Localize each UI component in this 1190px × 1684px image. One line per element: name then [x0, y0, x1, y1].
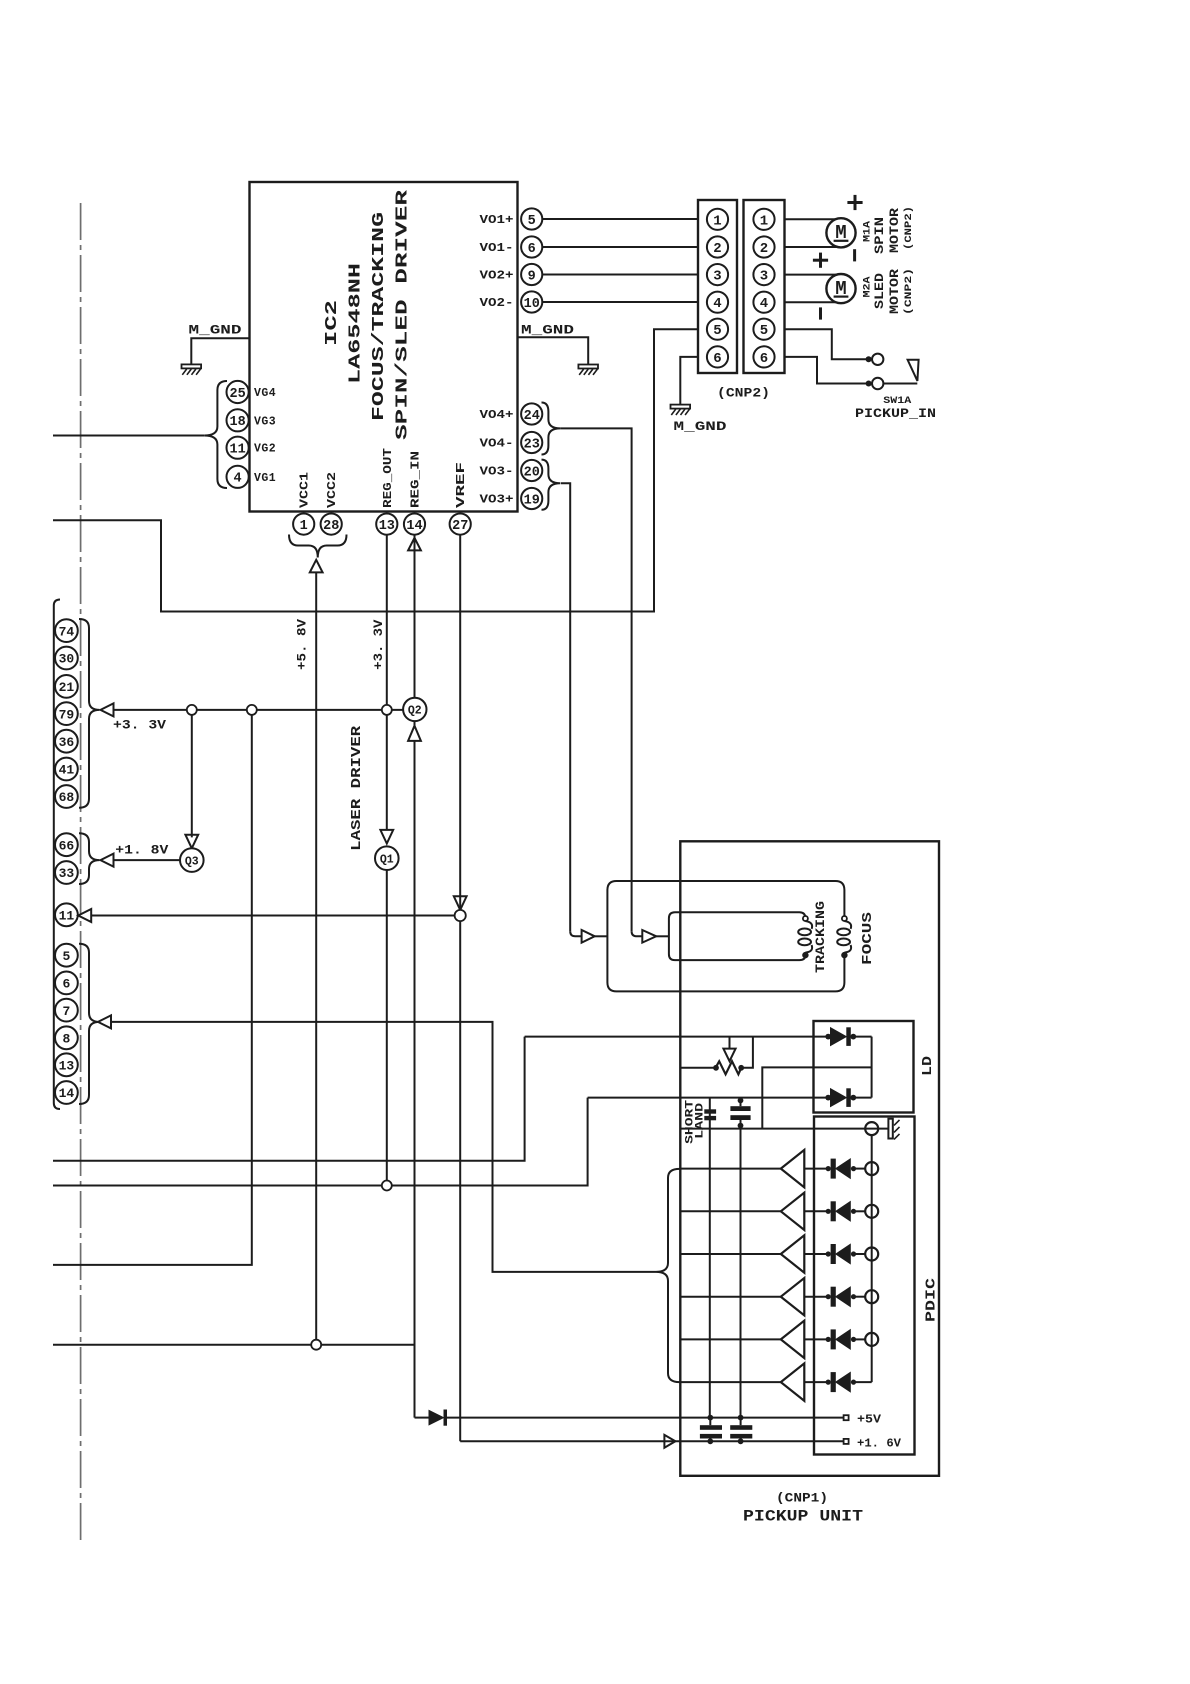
- svg-text:VO3+: VO3+: [480, 494, 514, 507]
- svg-text:13: 13: [59, 1058, 75, 1073]
- svg-text:20: 20: [524, 465, 540, 480]
- photodiode PD6: [804, 1381, 828, 1383]
- pin 4 CNP2 right: [753, 292, 774, 313]
- svg-text:PICKUP UNIT: PICKUP UNIT: [743, 1508, 863, 1526]
- inductor focus coil: [842, 916, 847, 921]
- svg-text:Q3: Q3: [185, 855, 199, 868]
- arrow +3.3V net: [101, 703, 114, 716]
- arrow REG_IN pin14: [408, 538, 421, 551]
- junction on +3.3V rail b: [247, 705, 257, 715]
- wire CNP2 p5 to switch: [785, 329, 867, 359]
- brace VO4 pins: [542, 403, 561, 455]
- photodiode PD3: [804, 1253, 828, 1255]
- svg-text:+5V: +5V: [857, 1413, 881, 1426]
- wire pin11 to VREF node: [91, 915, 454, 917]
- svg-text:21: 21: [59, 680, 75, 695]
- junction +5.8V at VCC return: [311, 1340, 321, 1350]
- node connector pin 8: [55, 1026, 78, 1049]
- svg-text:19: 19: [524, 493, 540, 508]
- node connector pin 68: [55, 785, 78, 808]
- svg-text:4: 4: [760, 296, 768, 312]
- svg-text:9: 9: [528, 269, 536, 284]
- svg-text:11: 11: [229, 443, 245, 458]
- node connector pin 33: [55, 861, 78, 884]
- wire +5.8V supply: [315, 572, 317, 1340]
- svg-text:VO3-: VO3-: [480, 466, 514, 479]
- op-amp/driver IC U IC2 box: [250, 182, 518, 512]
- amplifier PDIC ch3: [680, 1253, 781, 1255]
- svg-text:79: 79: [59, 707, 75, 722]
- transistor Q1: [375, 846, 399, 870]
- svg-text:2: 2: [760, 241, 768, 257]
- svg-text:VG1: VG1: [254, 472, 276, 485]
- ground M_GND below CNP2: [671, 405, 691, 409]
- photodiode PD4: [804, 1296, 828, 1298]
- laser diode LD1: [825, 1034, 831, 1040]
- svg-text:1: 1: [760, 213, 768, 229]
- wire cap branch vertical: [740, 1129, 742, 1418]
- svg-text:14: 14: [406, 519, 422, 534]
- pickup unit enclosure: [680, 841, 939, 1476]
- wire Q3 feed: [191, 715, 193, 838]
- wire LD cathode to pdic gnd node: [762, 1067, 871, 1128]
- svg-text:VO4+: VO4+: [480, 409, 514, 422]
- svg-text:MOTOR: MOTOR: [887, 208, 902, 253]
- wire switch lower lead: [883, 383, 917, 385]
- wire pot right lead: [741, 1037, 753, 1068]
- svg-text:REG_IN: REG_IN: [410, 451, 423, 508]
- wire CNP2-6 to ground: [680, 357, 698, 405]
- pin 4 VG1 of IC2: [227, 466, 249, 488]
- wire LD anode rail: [525, 1036, 829, 1038]
- node connector pin 11: [55, 903, 78, 926]
- switch SW1A lever: [908, 360, 919, 381]
- svg-text:VG3: VG3: [254, 415, 276, 428]
- svg-text:13: 13: [379, 519, 395, 534]
- transistor Q2: [403, 698, 426, 721]
- arrow VCC supply: [310, 560, 323, 573]
- transistor Q3: [180, 848, 204, 872]
- svg-text:PICKUP_IN: PICKUP_IN: [855, 407, 936, 421]
- pin 1 CNP2 left: [707, 209, 728, 230]
- brace pins 74-68: [79, 619, 100, 808]
- pin 5 CNP2 left: [707, 319, 728, 340]
- node PDIC out 3: [865, 1248, 878, 1261]
- node connector pin 36: [55, 730, 78, 753]
- wire VO1- to CNP2: [542, 246, 698, 248]
- wire REG_IN to diode: [415, 1417, 430, 1419]
- connector CNP2 right housing: [744, 200, 785, 373]
- svg-text:(CNP2): (CNP2): [903, 206, 915, 250]
- svg-text:27: 27: [452, 519, 468, 534]
- wire pin7 to PDIC brace: [111, 1022, 656, 1272]
- photodetector PDIC box: [814, 1117, 915, 1455]
- short land jumper: [704, 1109, 716, 1113]
- arrow +1.8V net: [101, 854, 114, 867]
- svg-text:M_GND: M_GND: [674, 419, 727, 434]
- node +1.6V terminal: [844, 1439, 849, 1444]
- wire REG_IN vertical: [414, 535, 416, 726]
- node PDIC out 2: [865, 1205, 878, 1218]
- connector bus bracket: [54, 600, 60, 1110]
- node PDIC out 1: [865, 1162, 878, 1175]
- junction VREF node: [455, 910, 466, 921]
- svg-text:VO4-: VO4-: [480, 438, 514, 451]
- svg-text:MOTOR: MOTOR: [887, 269, 902, 314]
- wire CNP2-5 to IC side: [53, 329, 698, 611]
- brace VO3 pins: [542, 460, 561, 510]
- svg-text:1: 1: [300, 519, 308, 534]
- wire VREF vertical: [459, 535, 461, 910]
- arrow tracking drive: [642, 930, 656, 943]
- svg-text:M_GND: M_GND: [189, 323, 242, 338]
- svg-text:6: 6: [528, 242, 536, 257]
- node connector pin 74: [55, 619, 78, 642]
- svg-text:1: 1: [713, 213, 721, 229]
- svg-text:SPIN: SPIN: [872, 217, 887, 254]
- amplifier PDIC ch4: [680, 1296, 781, 1298]
- svg-text:74: 74: [59, 624, 75, 639]
- wire LD cathode common: [871, 1037, 873, 1098]
- node connector pin 13: [55, 1053, 78, 1076]
- svg-text:14: 14: [59, 1086, 75, 1101]
- wire VO4 to tracking coil: [560, 428, 631, 931]
- wire VG bus: [53, 435, 204, 437]
- junction REG_OUT at LD2 feed: [382, 1181, 392, 1191]
- svg-text:VO2+: VO2+: [480, 270, 514, 283]
- svg-text:LD: LD: [921, 1056, 936, 1076]
- svg-text:+1. 6V: +1. 6V: [857, 1437, 901, 1450]
- svg-text:3: 3: [760, 269, 768, 285]
- node connector pin 21: [55, 675, 78, 698]
- svg-text:5: 5: [713, 323, 721, 339]
- svg-text:VCC2: VCC2: [326, 472, 339, 508]
- svg-text:REG_OUT: REG_OUT: [382, 448, 395, 508]
- pin 18 VG3 of IC2: [227, 409, 249, 431]
- wire pot left lead: [680, 1067, 715, 1069]
- svg-text:41: 41: [59, 763, 75, 778]
- inductor tracking coil: [803, 916, 808, 921]
- svg-text:24: 24: [524, 409, 540, 424]
- pin 5 CNP2 right: [753, 319, 774, 340]
- svg-text:LA6548NH: LA6548NH: [347, 263, 366, 384]
- svg-text:5: 5: [528, 214, 536, 229]
- svg-text:+1. 8V: +1. 8V: [115, 843, 168, 858]
- amplifier PDIC ch2: [680, 1210, 781, 1212]
- brace pins 5-14: [79, 944, 100, 1104]
- photodiode PD5: [804, 1338, 828, 1340]
- svg-text:10: 10: [524, 297, 540, 312]
- node connector pin 6: [55, 972, 78, 995]
- svg-text:2: 2: [713, 241, 721, 257]
- wire PDIC common vertical: [871, 1135, 873, 1382]
- junction on +3.3V rail at REG_OUT: [382, 705, 392, 715]
- svg-text:23: 23: [524, 437, 540, 452]
- coil loop inner tracking: [669, 912, 806, 960]
- svg-text:+3. 3V: +3. 3V: [371, 619, 386, 669]
- wire LD2 anode rail: [588, 1097, 829, 1099]
- wire VO3 to focus coil: [561, 483, 570, 931]
- wire LD anode feed: [53, 1037, 525, 1161]
- svg-text:SLED: SLED: [872, 273, 887, 309]
- wire CNP2 p4 to sled motor: [785, 301, 836, 303]
- svg-text:VO1-: VO1-: [480, 242, 514, 255]
- diode D1: [429, 1410, 444, 1424]
- label + sled: [813, 259, 828, 262]
- capacitor C5b: [738, 1415, 744, 1421]
- svg-text:7: 7: [62, 1004, 70, 1019]
- svg-text:(CNP2): (CNP2): [717, 387, 770, 401]
- node PDIC out 4: [865, 1290, 878, 1303]
- wire REG_OUT vertical: [386, 535, 388, 830]
- pin 6 CNP2 right: [753, 346, 774, 367]
- amplifier PDIC ch1: [680, 1168, 781, 1170]
- motor M2A: [826, 274, 855, 303]
- wire VO2- to CNP2: [542, 301, 698, 303]
- wire +1.6V rail: [460, 1440, 843, 1442]
- svg-text:30: 30: [59, 652, 75, 667]
- pin 3 CNP2 left: [707, 264, 728, 285]
- svg-text:68: 68: [59, 790, 75, 805]
- pin 3 CNP2 right: [753, 264, 774, 285]
- svg-text:(CNP2): (CNP2): [903, 268, 915, 315]
- node PDIC ground contact: [865, 1122, 878, 1135]
- node connector pin 7: [55, 999, 78, 1022]
- wire net to +3.3V rail: [53, 715, 252, 1265]
- wire VCC return: [53, 1344, 415, 1346]
- pin 2 CNP2 left: [707, 236, 728, 257]
- svg-text:5: 5: [62, 949, 70, 964]
- svg-text:(CNP1): (CNP1): [776, 1491, 828, 1506]
- wire +3.3V rail: [113, 709, 403, 711]
- photodiode PD1: [804, 1168, 828, 1170]
- svg-text:6: 6: [760, 351, 768, 367]
- resistor variable APC: [716, 1061, 742, 1074]
- node PDIC out 5: [865, 1333, 878, 1346]
- arrow into Q3: [185, 835, 198, 849]
- svg-text:TRACKING: TRACKING: [813, 901, 828, 973]
- arrow into Q1: [380, 830, 393, 844]
- brace VG pins: [204, 381, 227, 488]
- wire +1.8V rail: [113, 859, 180, 861]
- svg-text:33: 33: [59, 866, 75, 881]
- wire CNP2 p6 to switch: [785, 357, 867, 384]
- svg-text:66: 66: [59, 838, 75, 853]
- arrow pin 11 net: [78, 909, 91, 922]
- svg-text:PDIC: PDIC: [925, 1278, 940, 1322]
- svg-text:25: 25: [229, 387, 245, 402]
- wire CNP2 p1 to spin motor: [785, 218, 836, 220]
- svg-text:36: 36: [59, 735, 75, 750]
- motor M1A: [826, 218, 855, 247]
- capacitor C upper: [738, 1098, 744, 1104]
- svg-text:LAND: LAND: [694, 1102, 706, 1139]
- junction on +3.3V rail a: [187, 705, 197, 715]
- brace VCC1 VCC2: [289, 535, 347, 558]
- ground PDIC (rotated): [888, 1119, 892, 1139]
- svg-text:SW1A: SW1A: [883, 395, 912, 407]
- wire pdic ground rail: [680, 1128, 888, 1130]
- wire LD2 anode feed: [53, 1098, 588, 1186]
- pin 11 VG2 of IC2: [227, 437, 249, 459]
- svg-text:VO2-: VO2-: [480, 297, 514, 310]
- pin 4 CNP2 left: [707, 292, 728, 313]
- arrow +1.6V into pickup: [664, 1435, 675, 1448]
- svg-text:M_GND: M_GND: [521, 323, 574, 338]
- svg-text:3: 3: [713, 269, 721, 285]
- pin 25 VG4 of IC2: [227, 381, 249, 403]
- svg-text:Q2: Q2: [408, 705, 422, 718]
- label - sled: [819, 307, 822, 319]
- amplifier PDIC ch6: [680, 1381, 781, 1383]
- capacitor C5a: [707, 1415, 713, 1421]
- brace pins 66-33: [79, 833, 100, 884]
- switch SW1A upper contact: [872, 354, 883, 365]
- wire VO1+ to CNP2: [542, 218, 698, 220]
- svg-text:VG2: VG2: [254, 443, 276, 456]
- coil loop outer focus: [607, 881, 844, 991]
- svg-text:FOCUS: FOCUS: [861, 912, 876, 965]
- node connector pin 66: [55, 833, 78, 856]
- node connector pin 14: [55, 1081, 78, 1104]
- svg-text:6: 6: [713, 351, 721, 367]
- svg-text:+3. 3V: +3. 3V: [113, 718, 166, 733]
- wire CNP2 p3 to sled motor: [785, 274, 837, 276]
- svg-text:28: 28: [323, 519, 339, 534]
- switch SW1A lower contact: [872, 378, 883, 389]
- pin 6 CNP2 left: [707, 346, 728, 367]
- arrow focus drive: [582, 930, 595, 943]
- node connector pin 30: [55, 647, 78, 670]
- svg-text:VCC1: VCC1: [299, 472, 312, 508]
- svg-text:Q1: Q1: [380, 853, 394, 866]
- node connector pin 41: [55, 758, 78, 781]
- svg-text:4: 4: [234, 472, 242, 487]
- svg-text:VREF: VREF: [455, 462, 468, 508]
- pin 2 CNP2 right: [753, 236, 774, 257]
- svg-text:+5. 8V: +5. 8V: [295, 619, 310, 670]
- svg-text:LASER DRIVER: LASER DRIVER: [350, 725, 365, 851]
- arrow into Q2: [408, 726, 421, 741]
- net boundary chain line: [80, 203, 82, 1544]
- connector CNP2 left housing: [698, 200, 737, 373]
- photodiode PD2: [804, 1210, 828, 1212]
- svg-text:18: 18: [229, 415, 245, 430]
- svg-text:11: 11: [59, 908, 75, 923]
- label + spin: [847, 201, 862, 204]
- wire short land vertical: [709, 1098, 711, 1418]
- wire VO2+ to CNP2: [542, 274, 698, 276]
- wire +5V rail: [447, 1417, 844, 1419]
- brace PDIC inputs: [656, 1169, 680, 1382]
- svg-text:SPIN/SLED DRIVER: SPIN/SLED DRIVER: [394, 189, 413, 440]
- svg-text:8: 8: [62, 1031, 70, 1046]
- node connector pin 5: [55, 944, 78, 967]
- svg-text:VO1+: VO1+: [480, 214, 514, 227]
- svg-text:5: 5: [760, 323, 768, 339]
- svg-text:6: 6: [62, 977, 70, 992]
- label - spin: [853, 249, 856, 261]
- laser diode LD2: [825, 1095, 831, 1101]
- svg-text:4: 4: [713, 296, 721, 312]
- node +5V terminal: [844, 1415, 849, 1420]
- laser diode block LD box: [814, 1021, 914, 1113]
- amplifier PDIC ch5: [680, 1338, 781, 1340]
- pin 1 CNP2 right: [753, 209, 774, 230]
- arrow pin7 net: [98, 1015, 111, 1028]
- svg-text:VG4: VG4: [254, 387, 276, 400]
- svg-text:FOCUS/TRACKING: FOCUS/TRACKING: [370, 212, 389, 421]
- svg-text:IC2: IC2: [323, 300, 342, 346]
- wire CNP2 p2 to spin motor: [785, 246, 838, 248]
- arrow pot wiper: [729, 1037, 731, 1049]
- arrow VREF down: [454, 896, 467, 910]
- node connector pin 79: [55, 702, 78, 725]
